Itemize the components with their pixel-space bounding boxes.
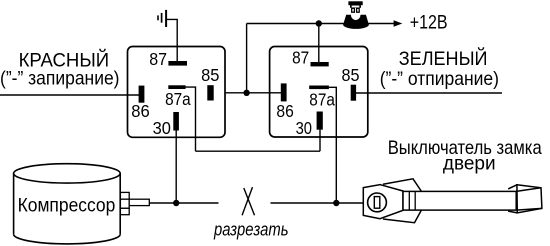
door lock cylinder circle [368,193,387,212]
relay K2 pin 30 contact [317,112,323,130]
door handle escutcheon plate [363,185,403,219]
cut mark X [242,187,254,215]
wire left main to relay K1 pin 86 [0,94,140,96]
door handle grip bar left ribs [409,191,415,210]
svg-text:30: 30 [153,118,171,138]
wire top feed to relay K2 pin 87 [318,24,320,63]
arrow to +12V [394,20,403,27]
fuse holder icon [343,1,369,29]
svg-text:87: 87 [149,49,167,69]
junction dot top feed / relay K2 pin 87 [316,20,322,26]
wire right main from relay K2 pin 85 [354,92,502,94]
wire connector between relays bottom [196,150,321,152]
junction dot compressor net [173,200,179,206]
wire relay K1 pin 87a tap down [186,87,196,151]
door handle grip bar [403,191,516,210]
door handle right end cap [508,185,542,213]
wire +12V feed top horizontal [247,23,395,25]
wire compressor to cut [150,202,219,204]
svg-text:87: 87 [292,48,309,68]
relay K2 pin 85 contact [351,85,356,101]
junction dot switch net [333,200,339,206]
relay K1 pin 86 contact [139,86,145,103]
svg-text:+12В: +12В [410,11,448,33]
door handle top wing [383,179,422,192]
compressor outlet connector [120,192,149,214]
door lock key slot [374,197,380,209]
relay K2 pin 87 contact [311,62,329,66]
relay K1 pin 87 contact [168,61,187,66]
junction dot middle net [243,90,249,96]
svg-text:двери: двери [443,152,496,174]
svg-text:86: 86 [276,101,293,121]
relay K1 pin 85 contact [207,85,213,100]
relay K2 pin 86 contact [281,83,287,101]
relay K2 [270,47,368,138]
svg-text:87а: 87а [309,89,335,109]
door handle bottom wing [383,210,422,223]
wire relay K2 pin 30 drop [319,130,321,152]
svg-text:Компрессор: Компрессор [18,195,116,217]
relay K1 pin 87a contact [168,85,185,89]
svg-text:85: 85 [201,65,219,85]
wire vertical drop from top feed to middle net [246,24,248,93]
svg-text:87а: 87а [165,89,191,109]
ground [158,10,166,27]
relay K1 [128,47,226,138]
svg-text:30: 30 [296,118,312,138]
relay K1 pin 30 contact [173,112,179,131]
svg-text:(”-” запирание): (”-” запирание) [0,68,120,90]
wire relay K1 pin 30 drop to compressor net [175,131,177,204]
svg-text:ЗЕЛЕНЫЙ: ЗЕЛЕНЫЙ [399,46,488,70]
svg-text:86: 86 [131,101,150,121]
relay K2 pin 87a contact [309,86,329,90]
svg-text:85: 85 [342,65,360,85]
wire relay K2 pin 87a tap down to switch net [329,87,336,203]
compressor cylinder [14,164,121,244]
wire cut to door switch [271,202,364,204]
svg-text:(”-” отпирание): (”-” отпирание) [380,68,499,90]
svg-text:разрезать: разрезать [213,220,288,240]
wire ground to relay K1 pin 87 [167,19,177,61]
wire middle net relay K1 to relay K2 pin 86 [225,92,285,94]
